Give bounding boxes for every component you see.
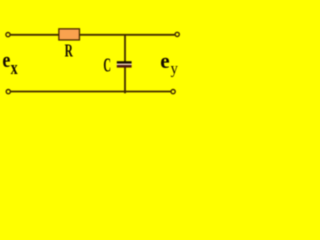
svg-text:C: C [103,54,111,76]
svg-text:R: R [65,41,74,61]
svg-text:e: e [160,48,169,73]
svg-text:e: e [2,47,10,72]
svg-text:y: y [171,61,178,78]
svg-text:x: x [11,59,19,79]
